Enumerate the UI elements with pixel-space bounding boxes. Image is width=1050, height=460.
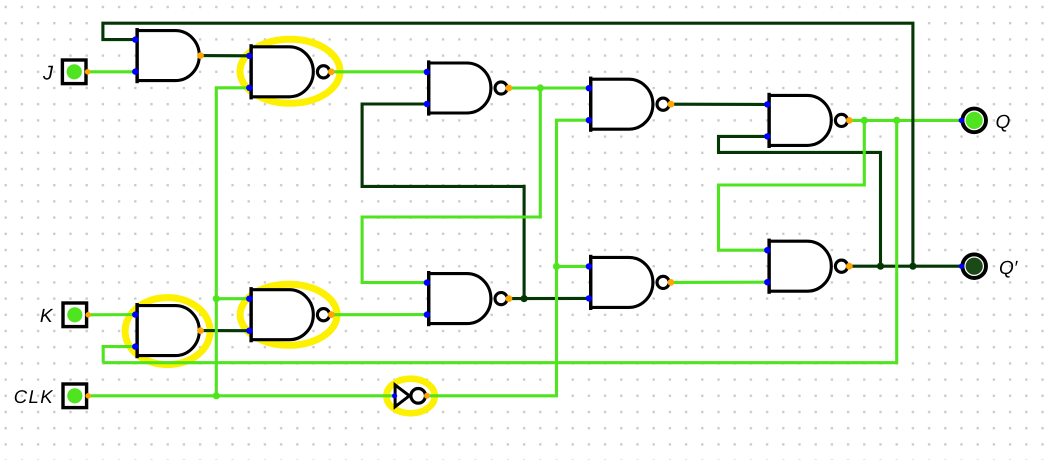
wire CLK riser to U2 bottom input (high) [216, 88, 249, 396]
NAND gate U2 [246, 44, 335, 99]
highlight ellipse around NAND U7 [240, 284, 337, 345]
svg-text:Q: Q [996, 112, 1011, 133]
wire U8 output to U3 bottom input (low) [362, 104, 524, 299]
NOT gate U11 [392, 385, 430, 407]
junction CLK node at bottom [213, 392, 220, 399]
highlight ellipse around NOT U11 [386, 379, 434, 414]
svg-text:J: J [42, 63, 54, 85]
wire U8 output to U9 bottom input (low) [508, 297, 589, 300]
wire inverted clock tee to U9 top input (high) [557, 265, 589, 268]
wire U7 output to U8 bottom input (high) [331, 313, 427, 316]
output LED Q (on) [959, 109, 986, 133]
wire U5 output to Q (high) [849, 119, 962, 122]
wire U3 output down to U8 top input (high) [362, 88, 540, 283]
wire U2 output to U3 top input (high) [331, 70, 427, 73]
junction CLK riser to U7 [213, 295, 220, 302]
junction inverted clock to U9 [553, 263, 560, 270]
wire K to U6 top input (high) [88, 313, 136, 316]
AND gate U1 [132, 28, 204, 83]
wire NOT U11 output up to U4 bottom input (high) [427, 120, 589, 396]
input button K [63, 303, 91, 327]
AND gate U6 [132, 303, 204, 358]
junction on Q' line to U5 [877, 263, 884, 270]
svg-text:CLK: CLK [14, 386, 54, 407]
NAND gate U9 [586, 255, 675, 310]
junction on Q' line to top feedback [909, 263, 916, 270]
wire U10 output to Q' (low) [849, 265, 962, 268]
input button CLK [63, 384, 91, 408]
wire Q' to U5 bottom input (low) [719, 136, 881, 266]
junction Q node 2 [893, 117, 900, 124]
NAND gate U5 [764, 93, 853, 148]
output LED Q' (off) [959, 254, 986, 278]
NAND gate U7 [246, 287, 335, 342]
svg-text:K: K [40, 306, 54, 327]
junction U3 output node [537, 84, 544, 91]
wire Q' to U1 top input (low) [103, 23, 913, 266]
wire J to U1 bottom input (high) [87, 70, 135, 73]
NAND gate U3 [424, 60, 513, 115]
wire U1 output to U2 top input (low) [201, 54, 250, 57]
junction Q node 1 [861, 117, 868, 124]
NAND gate U8 [424, 271, 513, 326]
wire Q feedback riser to U6 bottom input (high) [103, 347, 135, 363]
input button J [62, 60, 90, 84]
wire CLK tee to U7 top input (high) [216, 297, 249, 300]
wire Q feedback long run (high) [103, 120, 897, 362]
highlight ellipse around AND U6 [125, 298, 210, 365]
wire CLK to NOT U11 input (high) [88, 394, 395, 397]
highlight ellipse around NAND U2 [240, 39, 340, 103]
svg-text:Q′: Q′ [999, 258, 1019, 279]
junction on U8 output [521, 295, 528, 302]
NAND gate U4 [586, 77, 675, 132]
NAND gate U10 [764, 239, 853, 294]
wire U6 output to U7 bottom input (low) [201, 329, 250, 332]
wire Q to U10 top input (high) [719, 120, 865, 250]
wire U9 output to U10 bottom input (high) [670, 281, 767, 284]
wire U3 output to U4 top input (high) [508, 86, 589, 89]
wire U4 output to U5 top input (low) [670, 103, 767, 106]
